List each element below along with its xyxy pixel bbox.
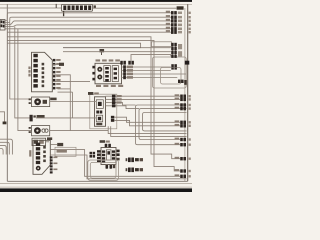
right margin pin row 8 <box>175 143 191 147</box>
wire L3 <box>5 21 171 25</box>
connector strip pins right of C40 <box>53 59 61 90</box>
connector C40 left pins <box>33 54 37 88</box>
stub wire from C40 pin 2 <box>52 63 64 65</box>
relay right contact block <box>112 66 118 82</box>
vertical junction wire <box>72 92 74 118</box>
page background <box>0 0 192 192</box>
socket box inner <box>90 162 116 178</box>
right margin pin row 10 <box>175 169 191 173</box>
right margin pin row 3 <box>175 103 191 107</box>
option box inner <box>161 68 182 85</box>
connector at left margin <box>0 20 5 31</box>
option box outer <box>153 57 187 88</box>
control unit U2 lower right pins <box>111 116 114 122</box>
U3 label <box>100 140 110 143</box>
control unit U2 right pins <box>112 95 122 108</box>
connector C40 outline <box>32 52 53 92</box>
connector C41 stub 1 <box>50 143 63 146</box>
junction box label K <box>100 49 105 52</box>
fuse feed wire right <box>93 7 177 9</box>
inline connector B1 <box>126 158 143 163</box>
wire U2 bottom 3 <box>111 126 187 136</box>
U3 right pins <box>117 150 120 161</box>
relay output wire 3 <box>122 72 187 75</box>
connector C41 outline <box>33 140 50 174</box>
ECU pin row 2 <box>166 15 191 19</box>
connector C40 right pins <box>42 63 45 87</box>
wire drop to switch <box>15 27 30 118</box>
wire from U2 lower pin 2 <box>114 120 180 125</box>
wire from C40 pin 6 <box>52 81 90 83</box>
top black border bar <box>0 0 192 2</box>
relay terminal labels top <box>96 59 120 61</box>
wire mid band 1 <box>58 88 71 90</box>
junction box label tick <box>101 52 103 55</box>
inner frame bottom second line <box>0 182 192 184</box>
wire from U2 pin 1 <box>116 95 181 97</box>
wire from U2 lower pin 1 <box>114 117 180 122</box>
inner frame left border <box>6 4 8 181</box>
connector pins above option box <box>171 43 182 58</box>
label box C42 <box>55 147 76 156</box>
wire L9 <box>7 43 171 48</box>
wire to fuse box <box>0 7 62 9</box>
label box on wire L9 <box>152 42 172 47</box>
relay top pin connectors <box>120 61 134 65</box>
return wire corner 1 <box>0 139 12 154</box>
relay unit U3 <box>97 148 116 165</box>
right margin pin row 5 <box>175 120 191 124</box>
connector C41 left pins <box>36 143 41 171</box>
outer frame bottom line <box>0 186 192 188</box>
lamp unit M1 <box>29 97 50 107</box>
nested box R2 <box>139 109 187 140</box>
wire L1 <box>5 13 171 21</box>
socket box outer <box>88 160 119 180</box>
relay output wire 2 <box>122 69 171 72</box>
right margin pin row 11 <box>175 174 191 178</box>
outer frame top line <box>0 3 192 5</box>
relay unit outline <box>95 63 122 84</box>
connector pins inside option box <box>171 64 177 69</box>
fuse box label a <box>94 5 96 8</box>
connector C41 top label <box>47 137 52 140</box>
ground tick at left margin <box>3 122 7 125</box>
right margin pin row 4 <box>175 107 191 111</box>
motor unit M2 <box>29 126 50 136</box>
fuse box pins <box>63 6 91 11</box>
control unit U2 <box>95 97 106 127</box>
return wire corner 3 <box>0 145 6 154</box>
right margin pin row 2 <box>175 98 191 102</box>
connector C41 wire 3 <box>50 155 186 179</box>
wire L6 <box>7 31 171 33</box>
inner frame right border <box>187 4 189 181</box>
relay left pins <box>92 66 94 81</box>
ECU pin row 6 <box>166 30 191 34</box>
ECU pin row 1 <box>166 11 191 15</box>
wire from U2 pin 3 <box>116 103 136 105</box>
connector C41 right pins <box>43 146 46 162</box>
switch S1 wire <box>36 117 96 119</box>
wire L8 <box>7 40 180 171</box>
wire drop to motor unit <box>18 29 32 131</box>
wire drop to lamp unit <box>10 23 32 100</box>
ground wire at left margin <box>0 112 5 122</box>
lamp unit M1 wire <box>50 101 97 103</box>
return wire corner 2 <box>0 142 9 154</box>
wire L5 <box>5 28 171 30</box>
inline connector B2 <box>126 168 143 173</box>
relay output wire 1 <box>122 65 171 68</box>
right margin pin row 1 <box>175 94 191 98</box>
wire from C40 pin 5 <box>52 75 70 131</box>
battery feed label <box>177 6 184 9</box>
ECU pin row 5 <box>166 27 191 31</box>
junction box top edge <box>63 47 141 49</box>
motor unit M2 wire <box>50 130 108 132</box>
switch S1 <box>30 115 45 122</box>
return wire corner 4 <box>0 149 3 155</box>
connector C41 wire 2 <box>50 150 180 177</box>
U3 bottom pins <box>106 165 116 170</box>
tick above feed wire <box>55 4 57 8</box>
U2 pin stubs <box>106 96 112 106</box>
inner frame right inner line <box>184 8 186 181</box>
ECU pin row 3 <box>166 19 191 23</box>
connector pins NW of U3 <box>90 152 96 158</box>
connector C41 designation text <box>29 150 31 156</box>
relay coil symbols <box>97 67 102 80</box>
ECU pin row 4 <box>166 23 191 27</box>
right margin pin row 6 <box>175 124 191 128</box>
relay terminal labels bottom <box>96 85 123 87</box>
connector C42 pins <box>50 156 58 173</box>
nested box R1 <box>136 105 187 145</box>
nested box R3 <box>143 113 187 131</box>
stub wires above option box <box>173 45 176 57</box>
connector pins lower option box <box>178 80 187 85</box>
right margin pin row 7 <box>175 138 191 142</box>
stub label <box>59 63 64 66</box>
lamp unit M1 label <box>50 98 56 101</box>
wire inside junction box <box>63 51 171 53</box>
solid label block right margin <box>185 61 190 65</box>
control unit U2 label <box>88 92 99 95</box>
wire L7 <box>7 37 180 159</box>
wire from U2 pin 4 <box>116 106 140 109</box>
sensor unit D1 wire <box>46 141 49 143</box>
fuse box BB outline <box>62 4 93 11</box>
wire from relay top pins <box>131 55 171 61</box>
control unit U2 enclosure <box>90 94 117 129</box>
wire L2 <box>5 17 171 22</box>
connector C40 designation text <box>28 67 30 77</box>
wire mid band 2 <box>58 91 73 93</box>
inner frame bottom border <box>7 180 187 182</box>
ground tick below fuse box <box>63 11 65 16</box>
wire L4 <box>5 25 171 27</box>
bottom black border bar <box>0 188 192 192</box>
relay output wire 4 <box>122 76 178 79</box>
right margin pin row 9 <box>175 157 191 161</box>
U3 top pins <box>105 144 111 148</box>
sensor unit D1 <box>32 138 46 145</box>
wire U2 bottom 2 <box>108 126 186 133</box>
wire from U2 pin 2 <box>116 98 181 100</box>
relay middle contact block <box>104 66 111 82</box>
